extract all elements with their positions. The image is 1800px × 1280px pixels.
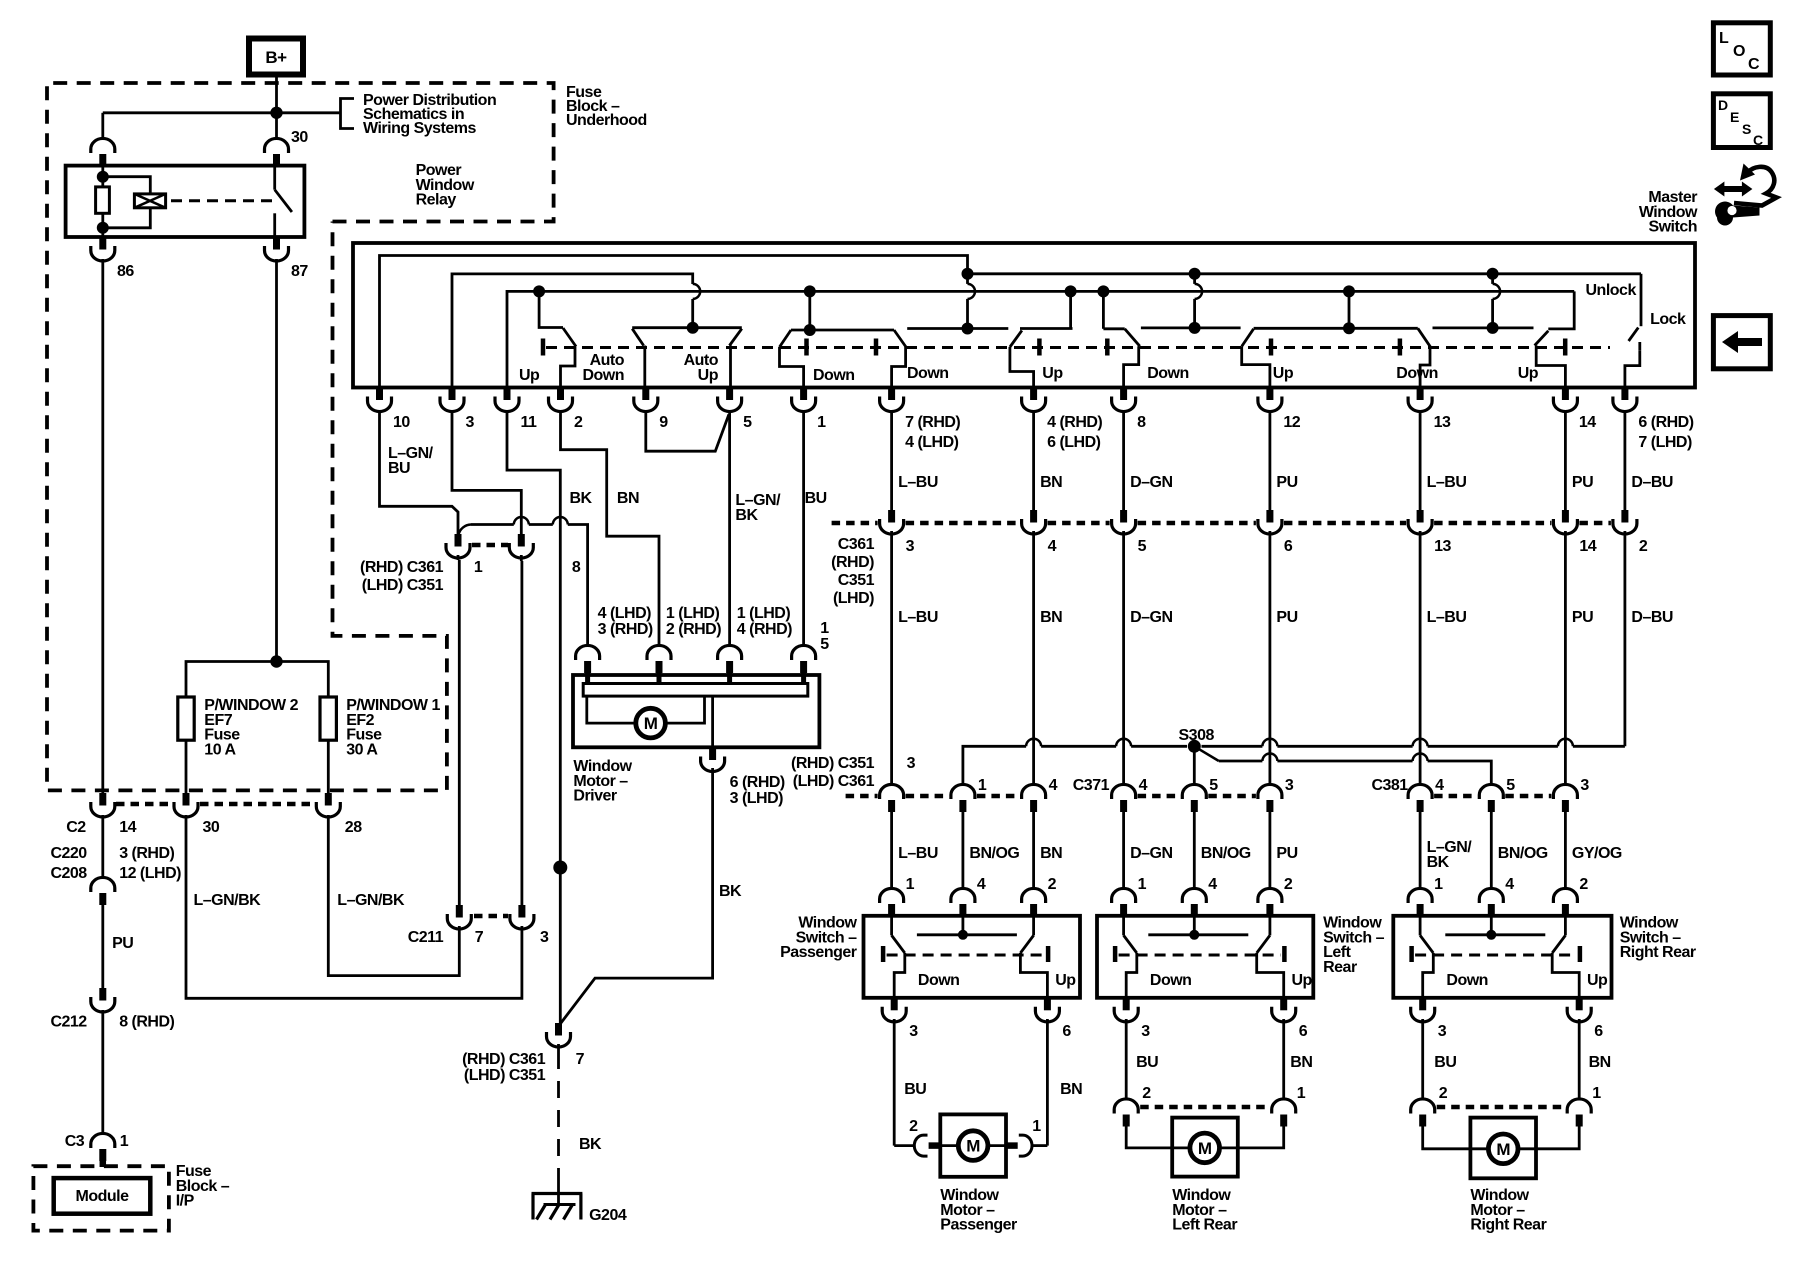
svg-text:3: 3 [1285,777,1294,794]
connector C3 [91,1133,115,1148]
svg-text:6: 6 [1284,538,1293,555]
connector pin 28 (fuse block) [325,793,332,806]
up tick Rear [1282,946,1287,962]
svg-text:14: 14 [119,819,136,836]
right rear down tick [1398,339,1403,356]
svg-text:Unlock: Unlock [1586,282,1637,299]
wire C211-7 up to C361-1 [458,560,461,905]
svg-text:87: 87 [291,263,308,280]
down blade Right Rear [1419,915,1422,935]
svg-text:(LHD) C361: (LHD) C361 [793,773,875,790]
svg-text:BN/OG: BN/OG [969,845,1019,862]
svg-text:C2: C2 [66,819,86,836]
switch common bar Right Rear [1490,915,1493,935]
wire BU passenger [893,1020,896,1146]
svg-text:8 (RHD): 8 (RHD) [119,1014,174,1031]
junction dot down pair bar [804,324,816,336]
svg-text:BU: BU [904,1081,926,1098]
wire pin5 L-GN/BK to motor [728,412,731,647]
svg-text:4: 4 [1435,777,1444,794]
svg-text:Up: Up [1292,972,1313,989]
svg-text:L–GN/BK: L–GN/BK [194,892,262,909]
svg-text:1: 1 [1032,1118,1041,1135]
svg-text:BN/OG: BN/OG [1498,845,1548,862]
driver down tick [804,339,809,356]
connector pin 4 Right Rear [1479,888,1503,903]
up tick Passenger [1046,946,1051,962]
svg-text:L–BU: L–BU [898,474,938,491]
passenger up lead to pin 4 [1010,347,1034,387]
svg-text:C381: C381 [1371,777,1408,794]
switch linkage dashed line [546,346,1610,349]
down pair bar [791,329,894,332]
svg-text:5: 5 [743,414,752,431]
svg-text:BN: BN [1040,474,1062,491]
junction dot bus1 right rear [1487,268,1499,280]
down lead Rear [1126,953,1137,998]
wire pin3 to C361-8 [452,412,521,534]
passenger down tick [874,339,879,356]
lower row dashes [846,794,878,799]
module box [54,1178,151,1214]
junction dot left rear middle bar [1189,322,1201,334]
svg-text:10: 10 [393,414,410,431]
svg-text:9: 9 [659,414,668,431]
wire D-BU down to S308 [1624,537,1627,746]
svg-text:C212: C212 [50,1014,87,1031]
svg-text:13: 13 [1434,538,1451,555]
left rear motor wires [1126,1126,1172,1148]
connector pin 6 Right Rear [1576,998,1583,1011]
relay left vertical [101,166,104,237]
svg-text:6 (LHD): 6 (LHD) [1047,434,1101,451]
right rear motor M [1470,1147,1487,1150]
ground symbol G204 [532,1192,583,1195]
svg-text:BN: BN [1589,1054,1611,1071]
right rear down blade [1418,328,1431,347]
svg-text:BU: BU [388,460,410,477]
left rear middle bar [1141,326,1241,329]
svg-text:D–GN: D–GN [1130,845,1172,862]
wire PU down [1269,537,1272,786]
connector pin 2 Right Rear [1553,888,1577,903]
junction dot fuse feed [270,655,282,667]
svg-text:3 (RHD): 3 (RHD) [119,845,174,862]
wire BN passenger [1046,1020,1049,1146]
svg-text:4: 4 [1048,538,1057,555]
junction dot driver up feed [533,285,545,297]
up lead Right Rear [1552,953,1579,998]
svg-text:Down: Down [907,365,949,382]
lock switch feed [1640,274,1643,326]
wire C2-14 down [101,815,104,878]
connector C211 pin 3 [518,905,525,918]
svg-text:5: 5 [820,636,829,653]
driver up switch blade [539,291,563,327]
svg-text:7: 7 [576,1051,585,1068]
fuse EF7 P/WINDOW 2 element [178,697,194,740]
svg-text:Passenger: Passenger [940,1217,1017,1234]
switch common bar Passenger [962,915,965,935]
left rear motor connector row [1114,1099,1138,1114]
svg-text:7 (RHD): 7 (RHD) [905,414,960,431]
svg-text:7 (LHD): 7 (LHD) [1638,434,1692,451]
svg-text:4 (LHD): 4 (LHD) [598,605,652,622]
svg-text:C351: C351 [838,572,875,589]
svg-text:G204: G204 [589,1207,627,1224]
svg-text:C371: C371 [1073,777,1110,794]
svg-text:2: 2 [1142,1085,1151,1102]
junction dot S308 [1188,740,1201,753]
svg-text:Driver: Driver [573,788,617,805]
switch linkage Rear [1119,954,1281,957]
connector pin 1 Right Rear [1408,888,1432,903]
down blade Rear [1122,915,1125,935]
svg-text:Relay: Relay [416,192,457,209]
junction dot relay bottom [97,222,109,234]
wire pin10 L-GN/BU to C361-1 [380,412,459,534]
wire EF2 to pin 28 [327,740,330,793]
svg-text:3: 3 [907,755,916,772]
right rear motor wires [1423,1126,1471,1149]
wire pin9 joins pin5 [646,412,729,451]
left rear up lead to pin 12 [1242,346,1270,387]
up blade Right Rear [1564,915,1567,935]
svg-text:L: L [1719,30,1729,47]
svg-text:(LHD) C351: (LHD) C351 [362,577,444,594]
svg-text:2: 2 [1048,876,1057,893]
svg-text:14: 14 [1579,538,1596,555]
wire pin1 BU to motor [802,412,805,647]
fuse block underhood dashed outline [47,83,554,790]
window motor passenger box [940,1114,1006,1176]
connector C220/C208 [91,877,115,892]
svg-text:Up: Up [1042,365,1063,382]
junction dot relay top [97,171,109,183]
connector C212 [99,988,106,1001]
svg-text:BU: BU [1434,1054,1456,1071]
relay coil box with X [134,194,165,208]
svg-text:C220: C220 [50,845,87,862]
connector C211 pin 7 [456,905,463,918]
connector C361/C351 pin 7 (ground) [555,1023,562,1036]
svg-text:Down: Down [582,367,624,384]
power window relay box [66,166,305,237]
driver motor pin arcs [576,645,600,660]
window switch box Right Rear [1393,916,1611,998]
wire pin 87 down to fuse tops [275,259,278,662]
svg-text:3: 3 [540,929,549,946]
svg-text:30 A: 30 A [346,741,378,758]
passenger motor left connector [894,1144,914,1147]
svg-text:Up: Up [519,367,540,384]
hop bus3 over busB [693,284,701,299]
wire to relay coil side [103,111,277,114]
connector row C351/C371/C381 [880,784,904,799]
svg-text:PU: PU [1572,609,1593,626]
relay pin 87 [273,237,280,250]
window motor right rear box [1470,1118,1536,1179]
svg-text:M: M [1496,1140,1510,1159]
icon DESC box [1713,94,1770,148]
switch linkage Passenger [887,954,1045,957]
svg-text:C211: C211 [408,929,444,946]
connector pin into relay (86 side) [101,113,104,140]
C361 connector dashes [472,543,508,548]
connector C2 pin 14 [99,793,106,806]
up tick Right Rear [1578,946,1583,962]
svg-text:D–BU: D–BU [1631,609,1673,626]
wire BK dashed to ground [557,1052,560,1180]
window switch box Rear [1097,916,1313,998]
svg-text:B+: B+ [265,48,287,67]
connector C361 pin 1 [455,534,462,547]
junction dot rear bar [1343,322,1355,334]
icon back arrow box [1713,316,1770,369]
lock switch lead to pin 6 [1625,351,1640,387]
svg-text:1: 1 [1434,876,1443,893]
wire L-BU 13 down [1419,537,1422,786]
svg-text:Right Rear: Right Rear [1620,944,1696,961]
driver motor right link [666,696,704,723]
svg-text:Down: Down [918,972,960,989]
down lead Passenger [894,953,905,998]
svg-text:Up: Up [1587,972,1608,989]
left rear motor M [1172,1147,1189,1150]
svg-text:11: 11 [521,414,538,431]
junction dot bus1 corner [962,268,974,280]
relay switch fixed contact [273,166,276,190]
bus from pin 3 [452,274,693,387]
svg-text:Up: Up [1055,972,1076,989]
passenger motor M [940,1144,956,1147]
svg-text:1: 1 [1592,1085,1601,1102]
svg-text:1 (LHD): 1 (LHD) [666,605,720,622]
svg-text:BK: BK [735,507,758,524]
driver motor M [636,708,666,738]
svg-text:BK: BK [719,883,742,900]
master window switch box [353,243,1695,388]
bus1 drop to passenger bar [966,274,969,284]
svg-text:L–BU: L–BU [898,609,938,626]
fuse feed rail [186,662,328,698]
battery feed B+ terminal box [249,39,303,75]
svg-text:13: 13 [1434,414,1451,431]
svg-text:1: 1 [906,876,915,893]
svg-text:14: 14 [1579,414,1596,431]
svg-text:Down: Down [1446,972,1488,989]
svg-text:4: 4 [1505,876,1514,893]
svg-text:86: 86 [117,263,134,280]
connector pin 30 (fuse block) [183,793,190,806]
C361 row dashes [906,521,1020,526]
wire EF7 to pin 30 [185,740,188,793]
svg-text:3: 3 [1580,777,1589,794]
right rear up lead to pin 14 [1536,346,1565,388]
svg-text:Wiring Systems: Wiring Systems [363,120,476,137]
svg-text:D–BU: D–BU [1631,474,1673,491]
driver motor left link [587,696,636,723]
auto down leg [632,329,643,346]
bus from pin 10 [380,256,968,388]
svg-text:PU: PU [1276,474,1297,491]
relay coil wires [103,177,151,194]
busB end to unlock pivot [1548,291,1574,329]
svg-text:BN: BN [1040,845,1062,862]
up lead Passenger [1020,953,1047,998]
svg-text:2: 2 [1579,876,1588,893]
fuse EF2 P/WINDOW 1 element [320,697,336,740]
svg-text:2: 2 [574,414,583,431]
wire C361-1 BK branch [471,523,514,526]
svg-text:3: 3 [1438,1023,1447,1040]
junction dot rear bar feed [1343,285,1355,297]
bus1 drop to right rear bar [1491,274,1494,284]
svg-text:BN: BN [1060,1081,1082,1098]
svg-text:L–BU: L–BU [1427,609,1467,626]
wires master to C361 row [890,412,893,510]
svg-text:Switch: Switch [1648,219,1697,236]
svg-text:30: 30 [291,129,308,146]
svg-text:E: E [1730,109,1739,125]
left rear up / right rear down bar [1254,327,1418,330]
connector row C361 (door harness) [888,510,895,523]
passenger middle bar [907,327,1008,330]
connector pin 1 Rear [1112,888,1136,903]
svg-text:4: 4 [1139,777,1148,794]
svg-text:O: O [1733,43,1745,60]
up blade Passenger [1032,915,1035,935]
svg-text:28: 28 [345,819,362,836]
right rear up blade [1535,331,1549,346]
svg-text:GY/OG: GY/OG [1572,845,1622,862]
svg-text:1: 1 [820,620,829,637]
junction dot B+ / distribution tap [270,107,282,119]
bus pin3 drop to auto switch [691,299,694,328]
svg-text:1 (LHD): 1 (LHD) [737,605,791,622]
right rear down lead to pin 13 [1420,347,1430,387]
lock switch blade [1629,328,1639,341]
svg-text:L–GN/BK: L–GN/BK [337,892,405,909]
svg-text:Down: Down [813,367,855,384]
connector pin 30 into relay [265,138,289,153]
svg-text:Down: Down [1147,365,1189,382]
svg-text:BU: BU [805,490,827,507]
driver motor pin stubs to bar [585,673,590,684]
svg-text:BN: BN [1290,1054,1312,1071]
down tick Right Rear [1409,946,1414,962]
down tick Rear [1113,946,1118,962]
svg-text:Up: Up [1273,365,1294,382]
left rear down blade [1125,329,1140,346]
svg-text:1: 1 [817,414,826,431]
svg-text:4 (RHD): 4 (RHD) [737,621,792,638]
window switch box Passenger [864,916,1081,998]
wire to C3 [101,1010,104,1134]
left rear up tick [1269,339,1274,356]
svg-text:Up: Up [698,367,719,384]
wire PU down [101,905,104,988]
rear bar feed wire [1348,291,1351,328]
wire BN right rear [1578,1020,1581,1101]
svg-text:BK: BK [579,1136,602,1153]
wire BU left rear [1125,1020,1128,1101]
driver motor return connector [709,748,716,761]
svg-text:C208: C208 [50,865,87,882]
svg-text:I/P: I/P [176,1193,195,1210]
passenger down lead to pin 7 [892,347,906,387]
svg-text:(RHD) C351: (RHD) C351 [791,755,875,772]
switch common bar Rear [1193,915,1196,935]
connector row dashes C2 [116,802,172,807]
svg-text:(RHD) C361: (RHD) C361 [462,1051,546,1068]
wire pin 86 down to C2 [101,259,104,794]
svg-text:2 (RHD): 2 (RHD) [666,621,721,638]
svg-text:8: 8 [1137,414,1146,431]
svg-text:Lock: Lock [1650,311,1686,328]
svg-text:30: 30 [203,819,220,836]
svg-text:1: 1 [1297,1085,1306,1102]
svg-text:PU: PU [1276,845,1297,862]
svg-text:3 (RHD): 3 (RHD) [598,621,653,638]
svg-text:Down: Down [1150,972,1192,989]
driver down lead to pin 1 [780,347,804,387]
svg-text:3 (LHD): 3 (LHD) [730,790,784,807]
svg-text:PU: PU [1572,474,1593,491]
svg-text:6 (RHD): 6 (RHD) [730,774,785,791]
svg-text:6 (RHD): 6 (RHD) [1638,414,1693,431]
svg-text:D–GN: D–GN [1130,474,1172,491]
wire BN left rear [1282,1020,1285,1101]
fuse block I/P dashed box [33,1166,169,1230]
connector pin 6 Rear [1280,998,1287,1011]
wire BN down [1032,537,1035,786]
icon LOC box [1713,23,1770,75]
svg-text:Right Rear: Right Rear [1470,1217,1546,1234]
bus1 drop to left rear bar [1193,274,1196,284]
up blade Rear [1269,915,1272,935]
connector pin 2 Passenger [1022,888,1046,903]
wire to power distribution callout [277,111,341,114]
svg-text:1: 1 [120,1133,129,1150]
connector C211 dashes [474,914,508,919]
connector C361 pin 8 [518,534,525,547]
svg-text:BN: BN [617,490,639,507]
down pair feed wire [808,291,811,330]
svg-text:4: 4 [1049,777,1058,794]
connector pin 3 Rear [1123,998,1130,1011]
connector pin 3 Passenger [891,998,898,1011]
svg-text:Underhood: Underhood [566,112,647,129]
svg-text:2: 2 [1439,1085,1448,1102]
svg-text:6: 6 [1594,1023,1603,1040]
S308 branch to C381-5 [1219,760,1263,763]
junction dot left rear down feed [1097,285,1109,297]
svg-text:3: 3 [1141,1023,1150,1040]
connector pin 2 Rear [1258,888,1282,903]
wire pin2 BN to motor [561,410,660,647]
svg-text:L–BU: L–BU [898,845,938,862]
svg-text:C: C [1753,132,1763,148]
relay pin 86 [99,237,106,250]
junction dot passenger up feed [1065,285,1077,297]
left rear down tick [1105,339,1110,356]
auto switch top bar [632,326,742,329]
svg-text:3: 3 [906,538,915,555]
svg-text:8: 8 [572,559,581,576]
svg-text:M: M [1198,1139,1212,1158]
driver up contact tick [541,339,546,356]
